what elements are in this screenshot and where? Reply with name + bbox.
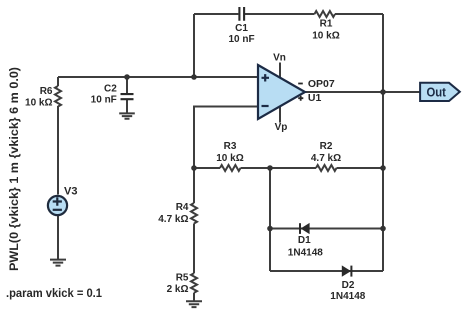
svg-text:10 nF: 10 nF xyxy=(228,34,254,45)
svg-text:Out: Out xyxy=(426,85,446,100)
svg-text:Vp: Vp xyxy=(275,122,288,133)
svg-text:2 kΩ: 2 kΩ xyxy=(167,284,189,295)
svg-text:R3: R3 xyxy=(224,141,237,152)
svg-text:4.7 kΩ: 4.7 kΩ xyxy=(311,153,341,164)
svg-text:10 kΩ: 10 kΩ xyxy=(312,31,339,42)
svg-text:R4: R4 xyxy=(176,202,189,213)
svg-text:10 kΩ: 10 kΩ xyxy=(216,153,243,164)
svg-text:C2: C2 xyxy=(104,83,117,94)
svg-text:R1: R1 xyxy=(320,19,333,30)
svg-text:Vn: Vn xyxy=(273,53,286,64)
svg-text:.param vkick = 0.1: .param vkick = 0.1 xyxy=(6,286,102,300)
svg-text:R6: R6 xyxy=(40,86,53,97)
svg-text:D2: D2 xyxy=(342,280,355,291)
svg-text:V3: V3 xyxy=(64,185,77,197)
svg-text:1N4148: 1N4148 xyxy=(288,248,323,259)
svg-text:R5: R5 xyxy=(176,272,189,283)
svg-text:R2: R2 xyxy=(320,141,333,152)
svg-text:4.7 kΩ: 4.7 kΩ xyxy=(158,214,188,225)
svg-text:C1: C1 xyxy=(235,23,248,34)
svg-text:D1: D1 xyxy=(298,235,311,246)
svg-text:U1: U1 xyxy=(308,92,322,104)
svg-text:PWL(0 {vkick} 1 m {vkick} 6 m: PWL(0 {vkick} 1 m {vkick} 6 m 0.0) xyxy=(7,67,21,271)
svg-text:10 nF: 10 nF xyxy=(91,94,117,105)
svg-text:OP07: OP07 xyxy=(308,78,335,90)
svg-text:1N4148: 1N4148 xyxy=(330,291,365,302)
svg-text:10 kΩ: 10 kΩ xyxy=(25,98,52,109)
